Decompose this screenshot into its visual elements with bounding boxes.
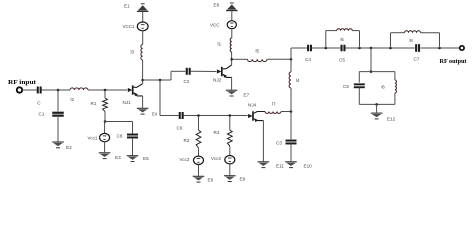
svg-text:VCC1: VCC1 (123, 24, 136, 29)
svg-text:l1: l1 (218, 41, 222, 46)
svg-text:l8: l8 (410, 38, 414, 43)
svg-text:l7: l7 (272, 102, 276, 107)
svg-text:l6: l6 (382, 85, 386, 90)
svg-text:VCC: VCC (210, 22, 220, 27)
svg-text:E5: E5 (143, 156, 149, 161)
svg-text:E4: E4 (152, 111, 158, 116)
svg-text:E11: E11 (276, 164, 284, 169)
svg-text:l2: l2 (71, 97, 75, 102)
svg-text:RF output: RF output (440, 58, 468, 65)
svg-text:l3: l3 (131, 50, 135, 55)
svg-text:E1: E1 (124, 4, 130, 9)
svg-text:E6: E6 (208, 177, 214, 182)
svg-text:R2: R2 (184, 138, 190, 143)
svg-text:E8: E8 (214, 2, 220, 7)
svg-text:C9: C9 (177, 126, 183, 131)
svg-text:E10: E10 (304, 164, 313, 169)
svg-text:l5: l5 (256, 48, 260, 53)
svg-text:E2: E2 (66, 145, 72, 150)
svg-text:C5: C5 (339, 57, 345, 62)
svg-text:E7: E7 (244, 93, 250, 98)
svg-text:C7: C7 (414, 57, 420, 62)
svg-text:C8: C8 (117, 133, 123, 138)
svg-text:NJ1: NJ1 (123, 100, 132, 105)
svg-text:RF input: RF input (8, 79, 37, 86)
svg-text:R3: R3 (214, 130, 220, 135)
svg-text:Vcc1: Vcc1 (88, 136, 98, 141)
svg-text:NJ4: NJ4 (248, 102, 257, 107)
svg-text:E12: E12 (387, 116, 396, 121)
svg-text:Vcc2: Vcc2 (180, 157, 190, 162)
svg-text:Vcc3: Vcc3 (211, 156, 221, 161)
svg-text:NJ2: NJ2 (213, 78, 222, 83)
svg-text:C1: C1 (39, 111, 45, 116)
svg-text:l6: l6 (341, 37, 345, 42)
svg-text:R1: R1 (91, 101, 97, 106)
svg-text:C3: C3 (276, 141, 282, 146)
svg-text:C2: C2 (184, 79, 190, 84)
svg-text:l4: l4 (296, 78, 300, 83)
svg-text:C6: C6 (343, 84, 349, 89)
svg-text:E9: E9 (240, 177, 246, 182)
svg-text:C: C (37, 101, 41, 106)
svg-text:C4: C4 (305, 57, 311, 62)
svg-text:E3: E3 (115, 155, 121, 160)
